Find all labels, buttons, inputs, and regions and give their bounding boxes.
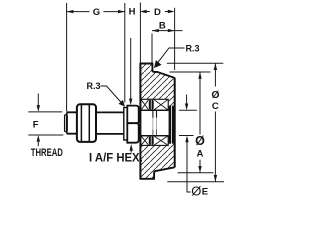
dim G line xyxy=(67,11,125,13)
flange outline upper profile xyxy=(140,64,174,78)
dim G left arrow xyxy=(67,10,74,13)
svg-text:C: C xyxy=(212,101,219,112)
dim F down arrow xyxy=(37,105,40,112)
dim E up arrow xyxy=(185,136,188,143)
o-ring groove box top xyxy=(141,99,168,110)
svg-text:G: G xyxy=(93,7,100,18)
flange plate left face xyxy=(139,63,141,180)
svg-text:H: H xyxy=(129,7,136,18)
bore step lines xyxy=(153,110,157,135)
dim C top extension line xyxy=(167,62,223,64)
dim I up arrow xyxy=(130,144,133,151)
dim A bottom extension line xyxy=(178,172,214,174)
dim C line lower segment xyxy=(214,112,216,182)
dim B right arrow xyxy=(168,29,175,32)
groove X left cell bottom xyxy=(141,136,149,146)
svg-text:B: B xyxy=(159,21,166,32)
svg-text:Ø: Ø xyxy=(211,89,219,101)
svg-text:R.3: R.3 xyxy=(87,81,101,91)
dim E down leader xyxy=(186,95,188,104)
dim H right / D left extension line (upper part) xyxy=(139,3,141,64)
dim E bottom extension line xyxy=(179,135,194,137)
bore top edge xyxy=(140,109,168,111)
svg-text:A: A xyxy=(196,148,203,159)
svg-text:Ø: Ø xyxy=(195,134,205,148)
dim A top extension line xyxy=(170,71,211,73)
svg-text:I A/F HEX.: I A/F HEX. xyxy=(89,151,143,164)
locknut hex xyxy=(77,104,96,142)
locknut facet lines xyxy=(81,105,89,142)
o-ring top (solid black) xyxy=(149,100,154,110)
dim E leader with elbow xyxy=(187,140,191,192)
flange front face xyxy=(174,78,176,168)
dim A up arrow xyxy=(198,72,201,79)
flange lower hatched section xyxy=(140,144,174,179)
dim F up leader tail xyxy=(37,142,39,146)
dim C up arrow xyxy=(214,63,217,70)
threaded stem xyxy=(67,112,77,133)
washer collar xyxy=(124,108,128,141)
dim A line lower segment xyxy=(199,160,201,173)
dim F bottom extension line xyxy=(28,134,63,136)
dim A line upper segment xyxy=(199,72,201,135)
groove X left cell top xyxy=(141,99,149,110)
R.3 upper arrowhead xyxy=(154,60,162,68)
groove X right cell bottom xyxy=(154,136,169,146)
o-ring bottom (solid black) xyxy=(149,136,154,145)
dim G right / H left extension line xyxy=(124,3,126,103)
stem barrel xyxy=(96,112,124,133)
dim I down leader xyxy=(130,38,132,99)
dim D left arrow xyxy=(140,10,147,13)
thread end face xyxy=(66,112,68,133)
dim G right arrow xyxy=(118,10,125,13)
o-ring groove box bottom xyxy=(141,136,168,146)
dim B left arrow xyxy=(152,29,159,32)
A/F hex nut xyxy=(127,106,138,124)
dim D/B right extension line xyxy=(174,8,176,70)
dim F up arrow xyxy=(37,135,40,142)
dim B left extension line xyxy=(151,34,153,63)
bore bottom edge xyxy=(140,135,168,137)
dim C down arrow xyxy=(214,175,217,182)
svg-text:D: D xyxy=(154,7,161,18)
thread end cap xyxy=(65,115,68,132)
svg-text:E: E xyxy=(202,187,208,198)
groove X right cell top xyxy=(154,99,169,110)
dim E down arrow xyxy=(185,104,188,111)
R.3 left leader xyxy=(101,86,124,105)
dim E top extension line xyxy=(179,109,197,111)
R.3 upper leader xyxy=(157,48,185,64)
flange lower profile xyxy=(140,167,174,179)
dim I down arrow xyxy=(129,99,132,106)
dim C bottom extension line xyxy=(167,181,224,183)
flange upper hatched section xyxy=(140,64,174,106)
dim D right arrow xyxy=(168,10,175,13)
dim F top extension line xyxy=(28,111,62,113)
retaining ring front (solid black bars) xyxy=(169,106,172,144)
dim G left extension line xyxy=(66,3,68,112)
svg-text:THREAD: THREAD xyxy=(31,147,63,160)
dim B line xyxy=(152,30,183,32)
svg-text:F: F xyxy=(33,120,39,131)
R.3 left arrowhead xyxy=(119,100,125,107)
dim F down leader xyxy=(37,94,39,106)
dim A down arrow xyxy=(198,166,201,173)
svg-text:Ø: Ø xyxy=(191,184,201,199)
dim C line upper segment xyxy=(214,63,216,86)
svg-text:R.3: R.3 xyxy=(186,43,200,53)
